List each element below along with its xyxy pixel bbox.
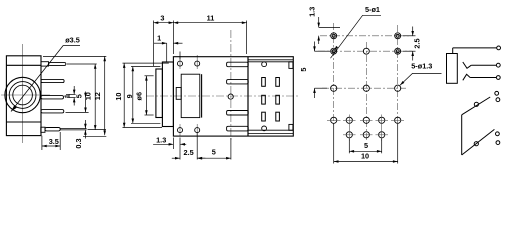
svg-text:5: 5	[75, 94, 84, 98]
svg-text:3.5: 3.5	[49, 137, 59, 146]
svg-text:5-ø1.3: 5-ø1.3	[411, 61, 432, 70]
svg-text:9: 9	[125, 94, 134, 98]
svg-text:5: 5	[212, 147, 216, 156]
svg-text:10: 10	[114, 93, 123, 101]
svg-text:11: 11	[207, 14, 215, 23]
svg-text:0.3: 0.3	[74, 138, 83, 148]
svg-text:1.3: 1.3	[156, 136, 166, 145]
svg-text:1: 1	[63, 94, 72, 98]
svg-text:3: 3	[160, 14, 164, 23]
svg-text:5: 5	[364, 141, 368, 150]
svg-text:1: 1	[157, 34, 161, 43]
svg-text:5: 5	[299, 68, 308, 72]
svg-text:ø6: ø6	[134, 92, 143, 101]
svg-text:ø3.5: ø3.5	[65, 36, 80, 45]
svg-text:5-ø1: 5-ø1	[365, 5, 380, 14]
svg-text:1.3: 1.3	[308, 7, 317, 17]
svg-text:10: 10	[84, 92, 93, 100]
svg-text:12: 12	[93, 92, 102, 100]
svg-text:2.5: 2.5	[413, 38, 422, 48]
svg-text:2.5: 2.5	[184, 148, 194, 157]
svg-text:10: 10	[361, 151, 369, 160]
